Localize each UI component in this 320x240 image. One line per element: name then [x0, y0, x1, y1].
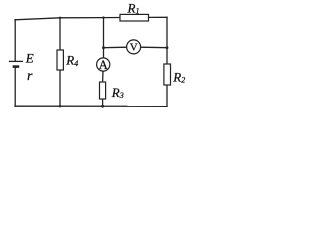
svg-text:A: A	[99, 58, 109, 72]
svg-text:R3: R3	[111, 85, 124, 100]
resistor R4	[57, 50, 63, 70]
wire bottom	[15, 105, 167, 107]
junction node R4/top	[59, 17, 61, 19]
junction node R3/bottom	[101, 105, 104, 108]
wire R3 to bottom	[102, 99, 104, 106]
svg-text:R4: R4	[65, 53, 78, 68]
svg-text:R1: R1	[127, 0, 140, 15]
svg-text:E: E	[25, 51, 34, 66]
wire top	[15, 18, 120, 20]
wire R4 branch bottom	[59, 70, 61, 106]
wire middle branch top	[103, 18, 105, 58]
ammeter A	[97, 58, 110, 72]
wire left lower	[14, 67, 16, 106]
battery E,r	[9, 61, 23, 66]
wire voltmeter left	[104, 46, 127, 49]
wire voltmeter right	[141, 46, 167, 49]
wire R4 branch top	[59, 18, 61, 50]
wire ammeter to R3	[102, 71, 104, 82]
resistor R2	[164, 64, 171, 85]
junction node middle/V-wire	[102, 46, 105, 49]
wire left upper	[14, 20, 16, 62]
junction node middle/top	[102, 16, 104, 18]
svg-text:R2: R2	[172, 70, 185, 85]
resistor R1	[120, 14, 149, 21]
voltmeter V	[127, 40, 141, 54]
wire right upper	[166, 17, 168, 64]
wire right lower	[166, 85, 168, 106]
svg-text:V: V	[130, 42, 138, 54]
svg-text:r: r	[27, 69, 33, 84]
junction node R4/bottom	[59, 105, 61, 107]
resistor R3	[100, 82, 106, 99]
wire top right of R1	[149, 16, 168, 18]
junction node right/V-wire	[166, 46, 169, 49]
